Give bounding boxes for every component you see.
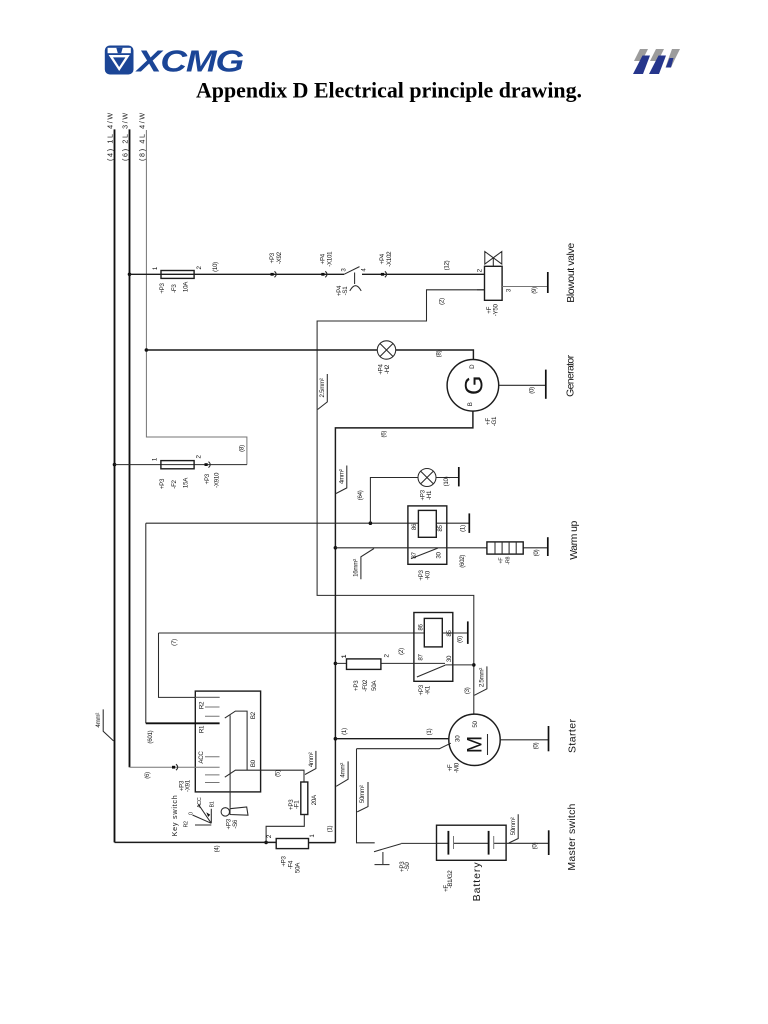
svg-text:-F2: -F2 — [171, 479, 178, 488]
svg-text:2.5mm²: 2.5mm² — [478, 668, 485, 687]
svg-text:(0): (0) — [529, 387, 536, 394]
svg-text:85: 85 — [437, 525, 444, 532]
svg-text:-X91: -X91 — [185, 779, 192, 792]
svg-text:4mm²: 4mm² — [338, 469, 345, 484]
svg-text:(6): (6) — [457, 636, 464, 643]
svg-text:(7): (7) — [171, 639, 178, 646]
svg-text:0: 0 — [188, 812, 194, 815]
svg-text:(2): (2) — [439, 298, 446, 305]
svg-text:-S1: -S1 — [342, 286, 349, 296]
svg-text:86: 86 — [418, 624, 425, 631]
svg-text:4mm²: 4mm² — [339, 763, 346, 778]
svg-text:4mm²: 4mm² — [308, 752, 315, 767]
svg-text:50: 50 — [472, 721, 479, 728]
svg-text:Appendix D Electrical principl: Appendix D Electrical principle drawing. — [196, 78, 582, 103]
svg-text:-X101: -X101 — [326, 251, 333, 267]
svg-text:-B1/G2: -B1/G2 — [447, 870, 454, 889]
svg-text:(602): (602) — [459, 555, 466, 568]
svg-text:-X102: -X102 — [386, 251, 393, 267]
svg-text:87: 87 — [418, 654, 425, 661]
svg-text:(0): (0) — [533, 742, 540, 749]
svg-text:B0: B0 — [250, 759, 257, 767]
svg-text:10A: 10A — [183, 281, 190, 292]
svg-text:(3): (3) — [464, 687, 471, 694]
svg-text:Generator: Generator — [564, 354, 576, 397]
svg-text:(8): (8) — [436, 350, 443, 357]
svg-text:(4): (4) — [213, 845, 220, 852]
svg-text:50mm²: 50mm² — [359, 785, 366, 803]
svg-text:(1): (1) — [426, 728, 433, 735]
svg-text:R2: R2 — [183, 821, 189, 828]
svg-text:Starter: Starter — [567, 719, 579, 754]
svg-text:+P3: +P3 — [204, 473, 211, 484]
svg-text:(12): (12) — [444, 260, 451, 270]
svg-text:R2: R2 — [199, 701, 206, 709]
svg-text:(1): (1) — [460, 525, 467, 532]
svg-text:16mm²: 16mm² — [352, 559, 359, 577]
svg-text:85: 85 — [446, 630, 453, 637]
svg-text:30: 30 — [455, 735, 462, 742]
svg-text:(601): (601) — [147, 730, 154, 743]
svg-text:ACC: ACC — [198, 751, 205, 764]
svg-text:(64): (64) — [357, 490, 364, 500]
svg-text:-F1: -F1 — [294, 800, 301, 809]
svg-text:M: M — [463, 736, 486, 754]
svg-text:Master switch: Master switch — [566, 803, 578, 870]
svg-text:-F3: -F3 — [171, 284, 178, 293]
svg-text:-H1: -H1 — [426, 490, 433, 500]
svg-text:(1): (1) — [326, 826, 333, 833]
svg-text:(10): (10) — [212, 262, 219, 272]
svg-text:-S6: -S6 — [232, 819, 239, 829]
svg-text:+P3: +P3 — [159, 478, 166, 489]
svg-text:(9): (9) — [531, 287, 538, 294]
svg-text:2.5mm²: 2.5mm² — [319, 378, 326, 397]
svg-text:+P3: +P3 — [281, 856, 288, 867]
svg-text:(8) 4L 4/W: (8) 4L 4/W — [138, 113, 147, 161]
svg-text:50mm²: 50mm² — [510, 817, 517, 835]
svg-text:XCMG: XCMG — [135, 44, 244, 79]
svg-text:+P3: +P3 — [269, 252, 276, 263]
svg-text:-X910: -X910 — [214, 472, 221, 488]
svg-text:-R8: -R8 — [505, 557, 511, 565]
svg-text:-K1: -K1 — [425, 685, 432, 695]
svg-text:Battery: Battery — [471, 862, 483, 902]
svg-text:+P4: +P4 — [379, 253, 386, 264]
svg-text:86: 86 — [411, 523, 418, 530]
svg-text:B2: B2 — [250, 711, 257, 719]
svg-text:-G1: -G1 — [491, 416, 498, 426]
svg-text:50A: 50A — [295, 862, 302, 873]
svg-text:-X92: -X92 — [276, 251, 283, 264]
svg-text:+P3: +P3 — [159, 283, 166, 294]
svg-text:-K0: -K0 — [425, 570, 432, 580]
svg-text:(6) 2L 3/W: (6) 2L 3/W — [121, 113, 130, 161]
svg-text:G: G — [460, 376, 488, 395]
svg-text:87: 87 — [411, 552, 418, 559]
svg-text:4mm²: 4mm² — [95, 713, 102, 728]
svg-text:+F: +F — [499, 557, 505, 564]
svg-text:(1): (1) — [341, 728, 348, 735]
svg-text:30: 30 — [436, 552, 443, 559]
svg-text:R1: R1 — [199, 725, 206, 733]
svg-text:(8): (8) — [239, 445, 246, 452]
svg-text:-S0: -S0 — [404, 862, 411, 872]
svg-text:(0): (0) — [533, 549, 540, 556]
svg-text:30: 30 — [446, 655, 453, 662]
svg-text:(10): (10) — [443, 476, 450, 486]
svg-text:ACC: ACC — [197, 797, 203, 808]
svg-text:50A: 50A — [371, 680, 378, 691]
svg-text:(6): (6) — [144, 772, 151, 779]
svg-text:(0): (0) — [532, 842, 539, 849]
svg-text:-F4: -F4 — [288, 860, 295, 869]
svg-text:(2): (2) — [398, 648, 405, 655]
svg-text:Key switch: Key switch — [170, 795, 179, 836]
svg-text:+P3: +P3 — [353, 680, 360, 691]
svg-text:15A: 15A — [183, 477, 190, 488]
svg-text:-H2: -H2 — [384, 364, 391, 374]
svg-text:(5): (5) — [275, 770, 282, 777]
svg-text:+P4: +P4 — [319, 253, 326, 264]
svg-text:Blowout valve: Blowout valve — [565, 243, 577, 303]
svg-text:20A: 20A — [311, 794, 318, 805]
svg-text:B1: B1 — [209, 801, 215, 807]
svg-text:Warm up: Warm up — [568, 521, 580, 560]
svg-text:-M0: -M0 — [453, 762, 460, 773]
svg-text:(4) 1L 4/W: (4) 1L 4/W — [105, 113, 114, 161]
svg-text:-F02: -F02 — [362, 679, 369, 691]
svg-text:-Y50: -Y50 — [493, 304, 500, 317]
svg-text:(6): (6) — [381, 431, 388, 438]
svg-text:B: B — [467, 402, 474, 406]
